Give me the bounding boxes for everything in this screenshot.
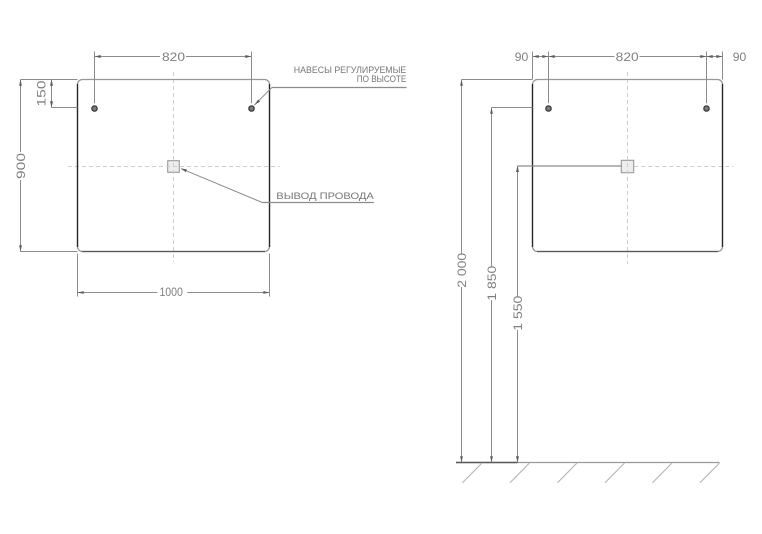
svg-text:150: 150 xyxy=(34,80,48,106)
svg-text:820: 820 xyxy=(616,50,639,64)
svg-text:ПО ВЫСОТЕ: ПО ВЫСОТЕ xyxy=(357,73,407,84)
svg-text:2 000: 2 000 xyxy=(455,253,469,288)
svg-text:820: 820 xyxy=(162,50,185,64)
svg-text:1 850: 1 850 xyxy=(485,266,499,301)
svg-text:900: 900 xyxy=(14,153,28,179)
svg-text:ВЫВОД ПРОВОДА: ВЫВОД ПРОВОДА xyxy=(276,190,374,201)
svg-text:1000: 1000 xyxy=(159,285,183,299)
svg-text:90: 90 xyxy=(515,50,529,64)
svg-text:1 550: 1 550 xyxy=(511,296,525,331)
svg-text:90: 90 xyxy=(733,50,747,64)
